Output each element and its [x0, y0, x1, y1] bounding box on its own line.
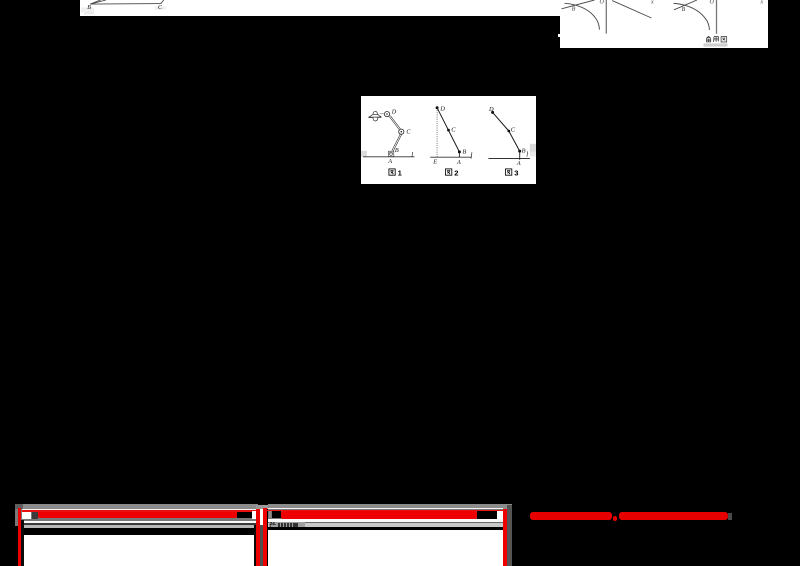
svg-text:B: B: [395, 147, 399, 154]
svg-text:E: E: [432, 159, 437, 166]
svg-text:C: C: [451, 127, 456, 134]
svg-text:A: A: [456, 159, 461, 166]
svg-text:D: D: [391, 108, 397, 115]
svg-text:A: A: [387, 158, 392, 165]
svg-text:l: l: [526, 151, 528, 159]
svg-text:l: l: [470, 151, 473, 160]
svg-text:D: D: [439, 105, 445, 112]
svg-text:2: 2: [454, 168, 458, 177]
svg-text:D: D: [488, 106, 494, 113]
svg-text:A: A: [516, 160, 521, 167]
svg-text:C: C: [511, 126, 516, 133]
svg-text:C: C: [406, 129, 411, 136]
svg-text:l: l: [411, 151, 413, 159]
svg-text:3: 3: [514, 168, 518, 177]
svg-text:B: B: [522, 147, 526, 154]
svg-text:B: B: [462, 148, 466, 155]
svg-text:1: 1: [398, 168, 403, 177]
